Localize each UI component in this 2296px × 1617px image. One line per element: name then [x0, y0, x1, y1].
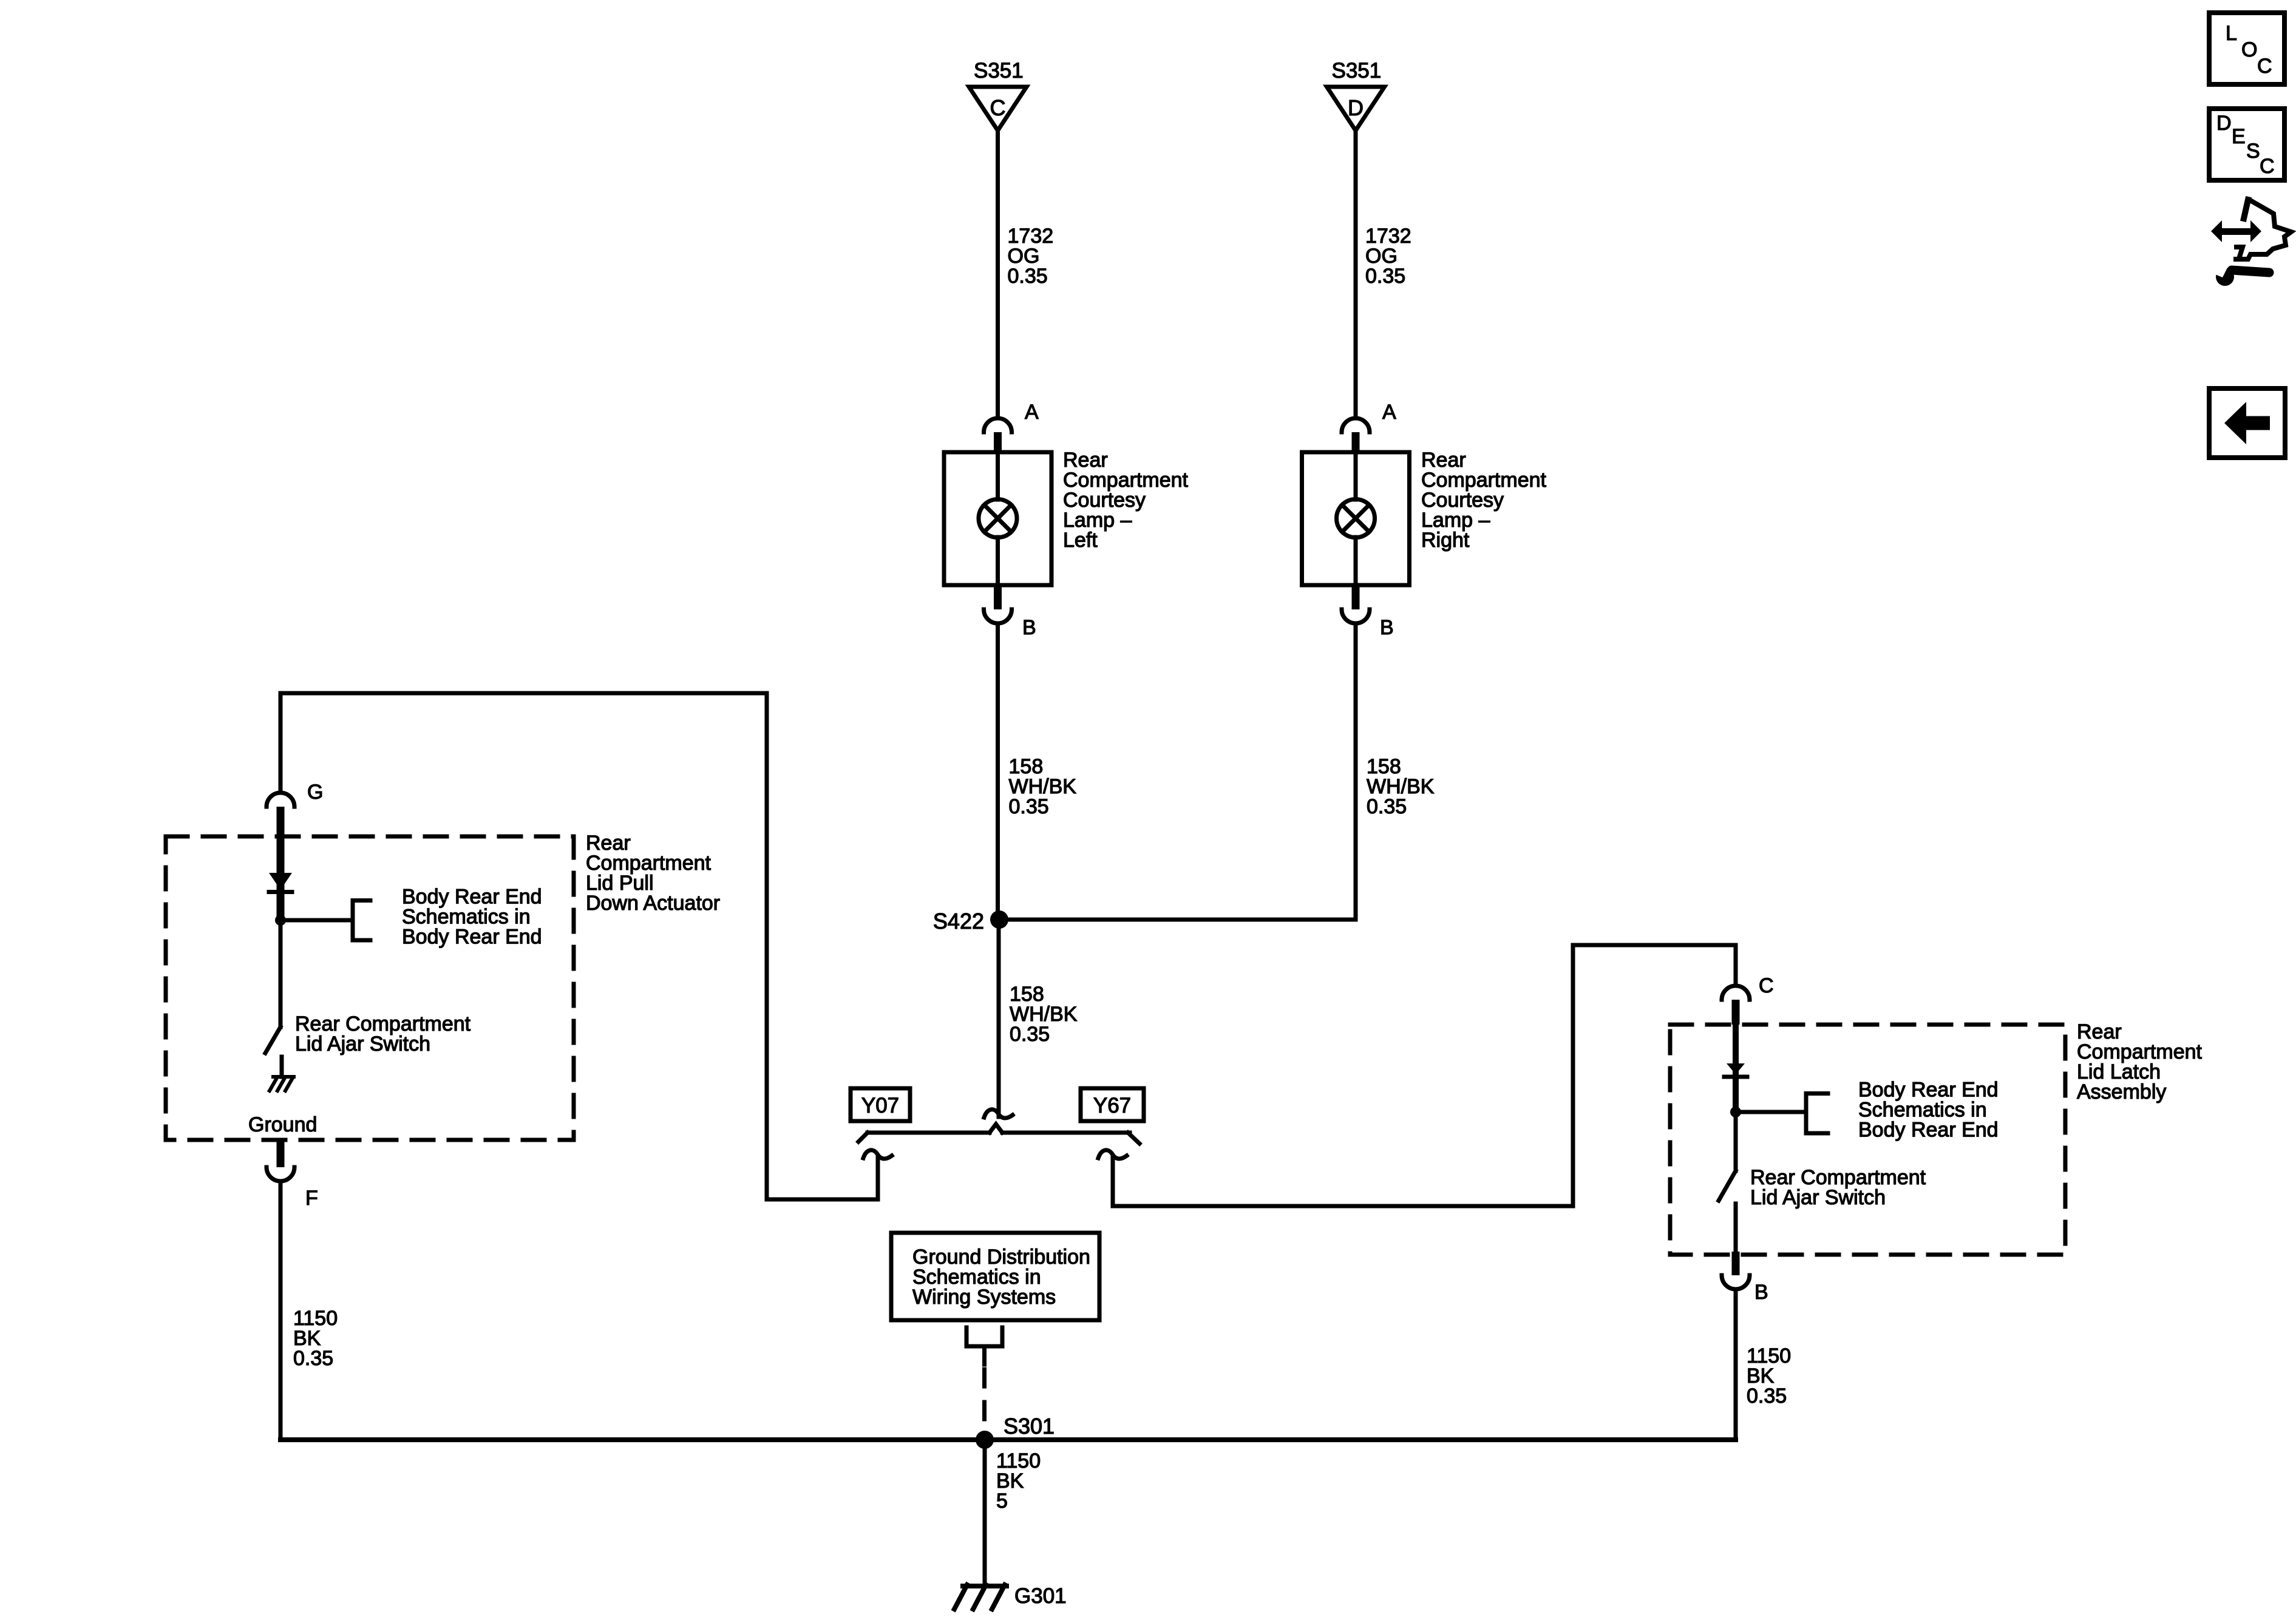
svg-text:C: C [990, 95, 1006, 120]
svg-text:S351: S351 [1332, 59, 1382, 83]
svg-text:D: D [1348, 95, 1364, 120]
svg-text:S: S [2246, 140, 2260, 163]
svg-text:0.35: 0.35 [1009, 795, 1049, 818]
svg-text:0.35: 0.35 [293, 1347, 333, 1370]
svg-text:S351: S351 [974, 59, 1024, 83]
svg-text:Assembly: Assembly [2077, 1080, 2166, 1103]
svg-text:F: F [305, 1187, 318, 1210]
svg-text:Y07: Y07 [861, 1094, 899, 1117]
svg-text:Lid Ajar Switch: Lid Ajar Switch [295, 1032, 430, 1056]
svg-text:0.35: 0.35 [1010, 1023, 1050, 1046]
svg-text:S301: S301 [1004, 1414, 1055, 1439]
svg-text:S422: S422 [933, 909, 984, 934]
svg-text:0.35: 0.35 [1365, 265, 1405, 288]
svg-text:B: B [1754, 1281, 1768, 1304]
svg-text:E: E [2232, 125, 2246, 148]
svg-text:B: B [1022, 616, 1036, 639]
svg-text:G: G [307, 781, 323, 804]
svg-text:G301: G301 [1014, 1584, 1067, 1608]
svg-text:C: C [2257, 55, 2272, 78]
svg-text:Down Actuator: Down Actuator [586, 892, 720, 915]
svg-text:Body Rear End: Body Rear End [402, 926, 542, 949]
svg-text:D: D [2216, 112, 2232, 135]
svg-text:B: B [1380, 616, 1394, 639]
svg-text:Left: Left [1063, 529, 1098, 552]
svg-text:C: C [1759, 974, 1774, 997]
svg-text:L: L [2226, 22, 2237, 45]
svg-text:Ground: Ground [248, 1113, 317, 1136]
svg-text:Lid Ajar Switch: Lid Ajar Switch [1750, 1186, 1886, 1209]
svg-text:5: 5 [996, 1490, 1008, 1513]
svg-text:0.35: 0.35 [1747, 1385, 1787, 1408]
svg-text:A: A [1382, 401, 1396, 424]
svg-text:Y67: Y67 [1093, 1094, 1131, 1117]
svg-text:Body Rear End: Body Rear End [1858, 1119, 1999, 1142]
svg-text:Right: Right [1421, 529, 1470, 552]
svg-text:0.35: 0.35 [1367, 795, 1407, 818]
svg-text:Wiring Systems: Wiring Systems [912, 1286, 1056, 1309]
svg-text:0.35: 0.35 [1008, 265, 1048, 288]
svg-text:O: O [2241, 38, 2257, 61]
svg-text:A: A [1025, 401, 1039, 424]
svg-text:C: C [2260, 155, 2275, 178]
